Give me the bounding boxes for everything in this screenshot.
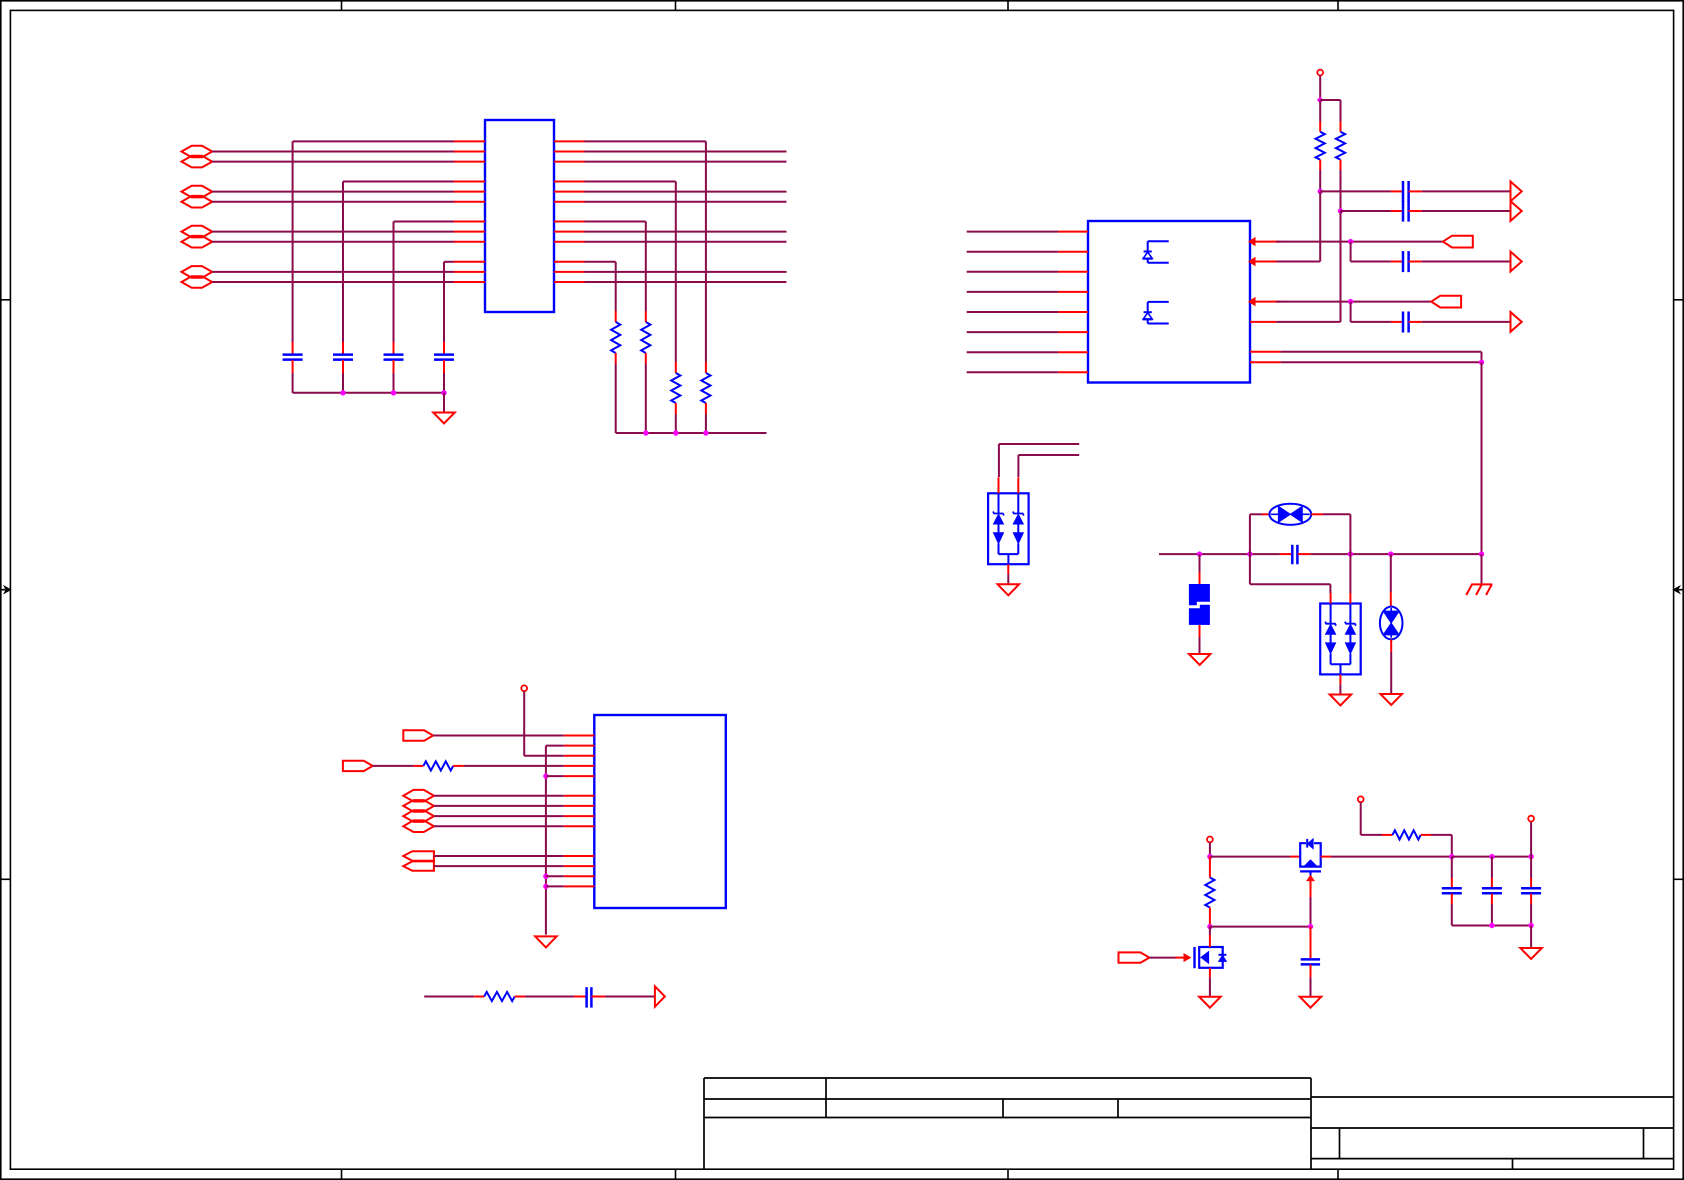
wire node B to C6 — [1341, 210, 1391, 212]
wire U1 row to R3 column — [585, 222, 646, 312]
junction R bus c — [703, 430, 708, 435]
junction row3 — [1348, 299, 1353, 304]
arrow out 3 — [1511, 252, 1522, 272]
tvs D4 (bidirectional, horizontal) — [1262, 504, 1323, 525]
U1 right pin 4 — [554, 181, 585, 183]
junction node C — [1207, 854, 1212, 859]
capacitor C4 — [434, 342, 454, 373]
bottom border tick 4 — [1337, 1169, 1339, 1179]
wire ESD1 left lead — [999, 444, 1079, 477]
capacitor C10 — [574, 987, 605, 1007]
title block right cell divider b — [1643, 1128, 1645, 1159]
wire R4 to bus — [615, 364, 617, 434]
wire port P9 to U3 — [434, 795, 564, 797]
wire bus to GND1 — [443, 393, 445, 413]
port P7 (hex) — [182, 266, 213, 278]
title block right cell divider a — [1339, 1128, 1341, 1159]
port tag PT4 — [343, 761, 373, 771]
resistor R3 — [1316, 122, 1325, 171]
U1 right pin 7 — [554, 221, 585, 223]
wire U1 right row out 2 — [585, 161, 787, 163]
wire port P11 to U3 — [434, 815, 564, 817]
junction bus e — [1479, 551, 1484, 556]
wire U2 left 3 — [967, 271, 1059, 273]
U3 left pin 11 — [564, 865, 595, 867]
wire R3 to node A — [1319, 170, 1321, 191]
ground GND7 — [1520, 948, 1542, 959]
wire gnd column to U3 pin5 — [546, 775, 564, 777]
mosfet Q2 (N-channel) — [1195, 947, 1227, 968]
wire R8 to C10 — [525, 996, 574, 998]
terminal T4 — [1358, 796, 1364, 802]
wire bus to TVS D6 — [1390, 554, 1392, 607]
wire Q1 drain to cap bank — [1321, 856, 1452, 858]
U1 right pin 8 — [554, 231, 585, 233]
wire R4 to node B — [1340, 170, 1342, 211]
U2 right pin 4 — [1250, 321, 1276, 323]
U1 left pin 1 — [454, 140, 485, 142]
title block row line 2 — [704, 1117, 1311, 1119]
wire C14 to GND8 — [1310, 977, 1312, 996]
U1 right pin 5 — [554, 191, 585, 193]
wire C4 to ground bus — [443, 373, 445, 393]
U2 right pin 3 (arrow) — [1249, 298, 1281, 306]
wire U1 pin row to C4 — [444, 262, 454, 342]
wire U1 pin row to C1 — [293, 141, 454, 342]
wire R1 to bus — [705, 414, 707, 433]
wire port P10 to U3 — [434, 805, 564, 807]
wire row3 branch to C8 — [1351, 302, 1391, 322]
wire port P8 to U1 — [212, 281, 454, 283]
wire U2 left 6 — [967, 331, 1059, 333]
wire PT5 to U3 pin10 — [434, 855, 564, 857]
junction row1 — [1348, 239, 1353, 244]
wire PT6 to U3 pin11 — [434, 865, 564, 867]
title block divider c — [1117, 1099, 1119, 1118]
wire C7 to arrow out 3 — [1422, 261, 1511, 263]
wire cap bus to GND7 — [1530, 926, 1532, 948]
esd array D3 (dual TVS) — [988, 477, 1029, 564]
U2 left pin 3 — [1058, 271, 1088, 273]
wire node C to Q1 — [1210, 856, 1300, 858]
ground GND5 — [1380, 694, 1402, 705]
bottom border tick 3 — [1007, 1169, 1009, 1179]
junction gnd column pin13 — [543, 884, 548, 889]
wire port P7 to U1 — [212, 271, 454, 273]
junction node B — [1338, 208, 1343, 213]
U2 right pin 2 (arrow) — [1249, 258, 1281, 266]
bottom border tick 2 — [675, 1169, 677, 1179]
wire row1 branch to C7 — [1351, 242, 1391, 262]
wire PT3 to U3 pin1 — [433, 735, 564, 737]
junction cap2 top — [1489, 854, 1494, 859]
port P2 (hex) — [182, 156, 213, 168]
junction node D left — [1207, 924, 1212, 929]
port P10 (hex) — [403, 800, 434, 812]
wire U2 left 8 — [967, 371, 1059, 373]
title block right row line 1 — [1311, 1096, 1674, 1098]
wire node D row — [1210, 926, 1311, 928]
wire TVS D4 to bus right — [1323, 514, 1350, 554]
arrow out 4 — [1511, 312, 1522, 332]
resistor R3 — [641, 311, 650, 364]
title block right bottom divider — [1512, 1159, 1514, 1170]
ground GND4 — [1330, 695, 1352, 706]
wire port P1 to U1 — [212, 151, 454, 153]
wire U1 right row out 4 — [585, 201, 787, 203]
U1 left pin 6 — [454, 201, 485, 203]
wire U1 right row out 1 — [585, 151, 787, 153]
U3 left pin 12 — [564, 875, 595, 877]
port P5 (hex) — [182, 226, 213, 238]
U2 left pin 7 — [1058, 351, 1088, 353]
wire to terminal T5 — [1530, 821, 1532, 856]
U1 left pin 2 — [454, 151, 485, 153]
capacitor C8 — [1391, 312, 1422, 333]
U2 right pin 1 (arrow) — [1249, 238, 1281, 246]
wire U1 row to R4 column — [585, 262, 616, 311]
U2 right pin 6 — [1250, 361, 1281, 363]
tvs D6 (bidirectional, vertical) — [1380, 607, 1403, 640]
wire gnd column to U3 pin13 — [546, 885, 564, 887]
U1 right pin 11 — [554, 271, 585, 273]
wire U1 right row out 7 — [585, 271, 787, 273]
junction C3 bus — [391, 390, 396, 395]
wire C5 to arrow out 1 — [1422, 190, 1511, 192]
wire node A to C5 — [1320, 190, 1391, 192]
U2 internal clamp diode D1 — [1143, 241, 1169, 263]
wire port P4 to U1 — [212, 201, 454, 203]
title block divider a — [825, 1078, 827, 1118]
port P1 (hex) — [182, 146, 213, 158]
wire port P2 to U1 — [212, 161, 454, 163]
wire node B down to U2 pin4 — [1276, 211, 1340, 322]
wire port P12 to U3 — [434, 825, 564, 827]
chassis ground (rake) — [1466, 584, 1492, 595]
ground GND9 — [1199, 997, 1221, 1008]
U2 left pin 8 — [1058, 371, 1088, 373]
wire cap bank bus top — [1452, 856, 1531, 858]
terminal T3 — [1207, 837, 1213, 843]
wire D3 to ground — [1007, 564, 1009, 584]
wire U2 pin1 to port tag — [1276, 241, 1443, 243]
junction R bus b — [673, 430, 678, 435]
junction bus c — [1348, 551, 1353, 556]
junction bus b — [1247, 551, 1252, 556]
ground GND8 — [1300, 997, 1322, 1008]
terminal T2 — [521, 685, 527, 691]
U1 right pin 3 — [554, 161, 585, 163]
resistor R5 — [1205, 857, 1214, 925]
junction bus d — [1388, 551, 1393, 556]
top border tick 4 — [1337, 1, 1339, 11]
wire gnd column to U3 pin12 — [546, 875, 564, 877]
wire ESD1 right lead — [1018, 455, 1079, 477]
resistor R4 — [611, 311, 620, 364]
U2 left pin 4 — [1058, 291, 1088, 293]
port tag PT3 — [403, 730, 433, 740]
port tag PT6 — [403, 861, 434, 870]
U1 right pin 2 — [554, 151, 585, 153]
top border tick 3 — [1007, 1, 1009, 11]
U1 left pin 12 — [454, 281, 485, 283]
U3 left pin 13 — [564, 885, 595, 887]
port P9 (hex) — [403, 790, 434, 802]
wire down to ESD bus — [1481, 362, 1483, 554]
title block left outline — [704, 1078, 1311, 1169]
capacitor C3 — [384, 342, 404, 373]
port P8 (hex) — [182, 276, 213, 288]
ground bus under caps — [293, 392, 444, 394]
arrow out 1 — [1511, 182, 1522, 202]
ground GND2 — [998, 584, 1020, 595]
U2 left pin 2 — [1058, 251, 1088, 253]
junction R bus a — [643, 430, 648, 435]
right border tick 2 — [1674, 878, 1684, 880]
wire branch to R4 column — [1320, 100, 1340, 122]
title block row line 1 — [704, 1098, 1311, 1100]
wire U2 left 1 — [967, 231, 1059, 233]
capacitor C12 — [1482, 857, 1502, 926]
U3 left pin 10 — [564, 855, 595, 857]
wire U1 pin row to C3 — [394, 222, 455, 343]
wire U2 pin6 — [1281, 361, 1482, 363]
wire U2 left 2 — [967, 251, 1059, 253]
Q1 gate red arrow — [1307, 876, 1314, 898]
U3 left pin 5 — [564, 775, 595, 777]
resistor R1 — [701, 362, 710, 414]
ic U2 — [1088, 221, 1250, 383]
capacitor C13 — [1521, 857, 1541, 926]
resistor R2 — [671, 362, 680, 414]
junction pins 5-6 — [1479, 360, 1484, 365]
wire Q1 gate down to node D — [1310, 897, 1312, 927]
port tag PT1 — [1443, 236, 1473, 248]
resistor R6 — [414, 761, 464, 770]
U1 left pin 8 — [454, 231, 485, 233]
junction C4 bus — [441, 390, 446, 395]
wire U2 pin5 corner — [1281, 352, 1482, 363]
port tag PT5 — [403, 851, 434, 860]
terminal T1 — [1317, 70, 1323, 76]
wire R5 node to Q2 drain — [1209, 927, 1211, 947]
wire U2 left 5 — [967, 311, 1059, 313]
U1 left pin 10 — [454, 261, 485, 263]
title block right row line 2 — [1311, 1127, 1674, 1129]
ESD main bus — [1159, 553, 1482, 555]
U2 internal clamp diode D2 — [1143, 302, 1169, 324]
wire D6 to ground — [1390, 640, 1392, 694]
wire port P3 to U1 — [212, 191, 454, 193]
wire C6 to arrow out 2 — [1422, 210, 1511, 212]
U3 left pin 3 — [564, 755, 595, 757]
port tag PT7 — [1119, 952, 1150, 962]
junction gnd column pin12 — [543, 874, 548, 879]
capacitor C9 (series on bus) — [1280, 545, 1310, 565]
U1 right pin 1 — [554, 140, 585, 142]
U2 left pin 1 — [1058, 231, 1088, 233]
wire U1 right row out 8 — [585, 281, 787, 283]
arrow out 2 — [1511, 201, 1522, 221]
wire T2 to U3 pin3 — [524, 691, 564, 756]
port P11 (hex) — [403, 810, 434, 822]
U3 left pin 6 — [564, 795, 595, 797]
junction T1 branch — [1317, 97, 1324, 104]
junction cap bus a — [1489, 923, 1494, 928]
wire U2 left 7 — [967, 351, 1059, 353]
title block divider b — [1002, 1099, 1004, 1118]
U1 left pin 11 — [454, 271, 485, 273]
U1 left pin 7 — [454, 221, 485, 223]
wire T4 to R7 — [1361, 802, 1382, 835]
junction bus a — [1197, 551, 1202, 556]
capacitor C2 — [333, 342, 353, 373]
top border tick 2 — [675, 1, 677, 11]
right border tick 1 — [1674, 299, 1684, 301]
resistor R4 — [1336, 122, 1345, 171]
junction node E — [1449, 854, 1454, 859]
wire U1 pin row to C2 — [343, 182, 454, 343]
U3 left pin 4 — [564, 765, 595, 767]
left border center arrow — [0, 586, 11, 593]
wire bus to ESD2 right column — [1349, 554, 1351, 593]
junction node D right — [1308, 924, 1313, 929]
resistor R7 — [1382, 830, 1431, 839]
junction cap3 top — [1528, 854, 1533, 859]
capacitor C14 — [1301, 927, 1320, 978]
U3 left pin 8 — [564, 815, 595, 817]
junction node A — [1318, 189, 1323, 194]
wire C8 to arrow out 4 — [1422, 321, 1511, 323]
wire C2 to ground bus — [342, 373, 344, 393]
left border tick 2 — [1, 878, 11, 880]
ic U1 — [485, 120, 554, 312]
resistor bottom bus — [616, 432, 767, 434]
wire R6 to U3 pin4 — [464, 765, 564, 767]
U3 left pin 7 — [564, 805, 595, 807]
wire bus to ESD2 left column — [1250, 554, 1331, 593]
U1 left pin 5 — [454, 191, 485, 193]
wire T1 to R3 — [1319, 100, 1321, 122]
wire U1 row to R1 column — [585, 141, 706, 362]
wire GDT to ground — [1199, 637, 1201, 654]
wire C3 to ground bus — [393, 373, 395, 393]
port P12 (hex) — [403, 820, 434, 832]
junction cap bus b — [1528, 923, 1533, 928]
capacitor C7 — [1391, 251, 1422, 272]
wire bus up to TVS D4 — [1250, 514, 1262, 554]
capacitor C5 — [1391, 181, 1422, 202]
U1 right pin 6 — [554, 201, 585, 203]
U1 left pin 4 — [454, 181, 485, 183]
U2 left pin 5 — [1058, 311, 1088, 313]
port P3 (hex) — [182, 186, 213, 198]
wire port P5 to U1 — [212, 231, 454, 233]
wire T1 down — [1319, 75, 1321, 100]
U1 right pin 10 — [554, 261, 585, 263]
U1 left pin 9 — [454, 241, 485, 243]
wire C10 to arrow out 5 — [605, 996, 655, 998]
wire node A down to U2 pin2 — [1276, 191, 1320, 261]
wire Q2 source to GND9 — [1209, 968, 1211, 996]
wire C1 to ground bus — [292, 373, 294, 393]
right border center arrow — [1673, 586, 1684, 593]
left border tick 1 — [1, 299, 11, 301]
wire D5 to ground — [1339, 674, 1341, 694]
title block right row line 3 — [1311, 1158, 1674, 1160]
capacitor C11 — [1442, 857, 1462, 926]
U2 left pin 6 — [1058, 331, 1088, 333]
wire U1 right row out 5 — [585, 231, 787, 233]
bottom border tick 1 — [341, 1169, 343, 1179]
top border tick 1 — [341, 1, 343, 11]
wire port P6 to U1 — [212, 241, 454, 243]
wire U1 right row out 6 — [585, 241, 787, 243]
wire PT7 to Q2 gate — [1149, 954, 1190, 961]
gdt F1 (surge element) — [1188, 572, 1210, 637]
wire T3 to node — [1209, 842, 1211, 856]
arrow out 5 — [655, 986, 665, 1006]
wire U1 row to R2 column — [585, 182, 676, 363]
U1 right pin 12 — [554, 281, 585, 283]
capacitor C1 — [283, 342, 303, 373]
ground GND1 — [433, 413, 455, 424]
ic U3 — [594, 715, 726, 908]
cap bank bottom bus — [1452, 925, 1531, 927]
terminal T5 — [1528, 816, 1534, 822]
wire R7 to node E — [1431, 835, 1452, 857]
U3 left pin 1 — [564, 735, 595, 737]
capacitor C6 — [1391, 201, 1422, 222]
wire PT4 to R6 — [373, 765, 414, 767]
U3 left pin 2 — [564, 745, 595, 747]
wire bus end to chassis ground — [1481, 554, 1483, 584]
resistor R8 — [474, 992, 525, 1001]
U3 left pin 9 — [564, 825, 595, 827]
ground GND3 — [1189, 654, 1211, 665]
esd array D5 (dual TVS) — [1320, 593, 1361, 674]
wire R2 to bus — [675, 414, 677, 433]
wire bus to GDT — [1199, 554, 1201, 572]
wire U2 left 4 — [967, 291, 1059, 293]
mosfet Q1 (P-channel) — [1300, 839, 1321, 876]
port tag PT2 — [1431, 296, 1461, 308]
wire U1 right row out 3 — [585, 191, 787, 193]
junction C2 bus — [340, 390, 345, 395]
ground GND6 — [535, 936, 557, 947]
title block right part divider — [1310, 1078, 1312, 1169]
port P6 (hex) — [182, 236, 213, 248]
wire RC input — [424, 996, 474, 998]
U1 right pin 9 — [554, 241, 585, 243]
wire U3 pin2 to ground column — [546, 746, 564, 935]
junction gnd column pin5 — [543, 773, 548, 778]
U1 left pin 3 — [454, 161, 485, 163]
U2 right pin 5 — [1250, 351, 1281, 353]
port P4 (hex) — [182, 196, 213, 208]
wire R3 to bus — [645, 364, 647, 434]
wire U2 pin3 to port tag 2 — [1276, 301, 1431, 303]
